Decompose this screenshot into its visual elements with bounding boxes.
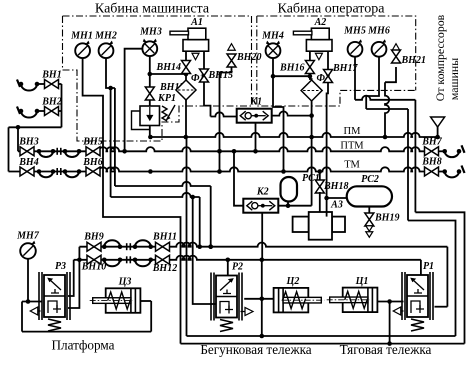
svg-text:МН4: МН4 [261, 31, 284, 42]
svg-text:ВН18: ВН18 [323, 181, 348, 192]
svg-text:ВН7: ВН7 [421, 137, 442, 148]
svg-text:ПТМ: ПТМ [340, 141, 364, 152]
svg-text:Бегунковая тележка: Бегунковая тележка [200, 342, 311, 357]
svg-text:Р3: Р3 [55, 261, 66, 272]
svg-text:А2: А2 [314, 17, 327, 28]
svg-text:Ц1: Ц1 [355, 276, 369, 287]
svg-text:ВН14: ВН14 [156, 62, 181, 73]
svg-text:К1: К1 [249, 97, 262, 108]
svg-text:ВН1: ВН1 [41, 70, 61, 81]
svg-text:Р2: Р2 [232, 262, 243, 273]
svg-text:Кабина оператора: Кабина оператора [278, 2, 386, 17]
svg-text:Ц3: Ц3 [118, 277, 132, 288]
svg-text:ВН11: ВН11 [152, 232, 177, 243]
svg-text:ВН19: ВН19 [374, 213, 399, 224]
svg-text:ТМ: ТМ [344, 160, 360, 171]
svg-text:МН1: МН1 [70, 31, 93, 42]
svg-text:МН7: МН7 [16, 231, 40, 242]
svg-text:РС2: РС2 [361, 174, 379, 185]
svg-text:ВН5: ВН5 [82, 137, 102, 148]
svg-text:ВН20: ВН20 [236, 52, 261, 63]
svg-text:Тяговая тележка: Тяговая тележка [340, 342, 432, 357]
svg-text:ВН8: ВН8 [421, 157, 441, 168]
svg-text:Ц2: Ц2 [286, 276, 300, 287]
svg-text:Кабина машиниста: Кабина машиниста [95, 2, 210, 17]
svg-text:ВН2: ВН2 [41, 97, 61, 108]
svg-text:МН6: МН6 [367, 26, 390, 37]
svg-text:ПМ: ПМ [344, 126, 362, 137]
svg-text:Платформа: Платформа [51, 338, 114, 353]
svg-text:А1: А1 [190, 17, 203, 28]
svg-text:МН5: МН5 [343, 26, 366, 37]
svg-text:ВН6: ВН6 [82, 157, 102, 168]
svg-text:ВН3: ВН3 [18, 137, 38, 148]
svg-text:ВН12: ВН12 [152, 263, 177, 274]
svg-text:ВН21: ВН21 [401, 55, 426, 66]
svg-text:ВН10: ВН10 [81, 262, 106, 273]
svg-text:машины: машины [447, 58, 461, 100]
svg-text:ВН9: ВН9 [83, 232, 103, 243]
svg-text:КР1: КР1 [157, 93, 176, 104]
svg-text:МН2: МН2 [94, 31, 117, 42]
svg-text:К2: К2 [256, 187, 269, 198]
svg-text:ВН16: ВН16 [279, 63, 304, 74]
svg-text:А3: А3 [330, 200, 343, 211]
svg-text:Р1: Р1 [423, 261, 434, 272]
svg-text:МН3: МН3 [139, 27, 162, 38]
svg-text:ВН4: ВН4 [18, 157, 38, 168]
svg-text:От компрессоров: От компрессоров [433, 14, 447, 101]
